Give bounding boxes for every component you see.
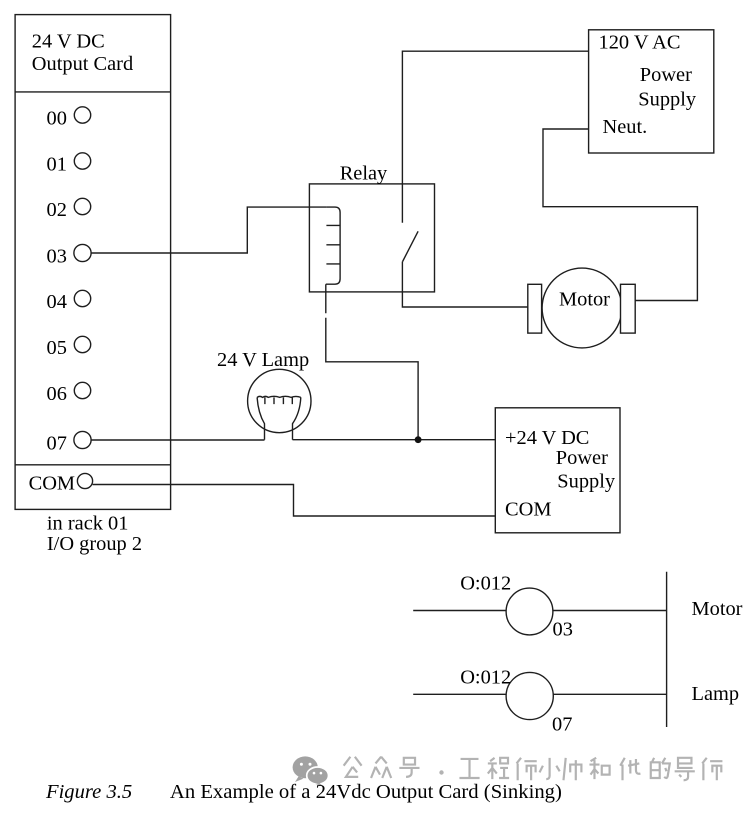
output coil O:012/07 bbox=[506, 672, 553, 719]
relay coil K1 bbox=[326, 207, 340, 284]
card COM divider bbox=[15, 464, 171, 466]
120VAC power supply box bbox=[589, 30, 714, 153]
svg-text:Figure 3.5: Figure 3.5 bbox=[45, 781, 132, 803]
svg-text:02: 02 bbox=[47, 199, 67, 221]
svg-text:Power: Power bbox=[556, 447, 608, 469]
lamp bulb bbox=[248, 369, 311, 432]
wire output 07 to lamp bbox=[91, 439, 264, 441]
svg-text:07: 07 bbox=[552, 714, 572, 736]
svg-text:05: 05 bbox=[47, 337, 67, 359]
svg-text:Power: Power bbox=[640, 64, 692, 86]
svg-text:06: 06 bbox=[47, 383, 67, 405]
terminal 00 bbox=[74, 107, 90, 123]
wire lamp to +24V supply bbox=[293, 439, 496, 441]
terminal 03 bbox=[74, 244, 91, 261]
svg-text:Supply: Supply bbox=[638, 88, 697, 110]
svg-text:120 V AC: 120 V AC bbox=[599, 31, 681, 53]
ladder rail bbox=[666, 572, 668, 727]
wire relay contact to motor bbox=[402, 262, 527, 308]
relay contact blade bbox=[403, 231, 419, 261]
relay box bbox=[309, 184, 434, 292]
junction node bbox=[415, 436, 422, 443]
svg-text:00: 00 bbox=[47, 108, 67, 130]
watermark wechat icon bbox=[293, 756, 329, 786]
svg-text:Motor: Motor bbox=[692, 598, 743, 620]
svg-text:Motor: Motor bbox=[559, 289, 610, 311]
card header divider bbox=[15, 91, 171, 93]
svg-text:An Example of a 24Vdc Output C: An Example of a 24Vdc Output Card (Sinki… bbox=[170, 781, 562, 803]
svg-text:+24 V DC: +24 V DC bbox=[505, 427, 589, 449]
watermark text strokes bbox=[344, 757, 723, 781]
wire neutral to motor bbox=[543, 129, 697, 301]
svg-text:Relay: Relay bbox=[340, 162, 388, 184]
wire output 03 to relay coil bbox=[91, 207, 326, 253]
svg-text:Neut.: Neut. bbox=[603, 116, 648, 138]
output card box bbox=[15, 15, 171, 510]
svg-text:in rack 01: in rack 01 bbox=[47, 513, 129, 535]
svg-text:O:012: O:012 bbox=[460, 572, 511, 594]
svg-text:24 V Lamp: 24 V Lamp bbox=[217, 349, 309, 371]
output coil O:012/03 bbox=[506, 588, 553, 635]
motor right terminal bbox=[621, 284, 636, 333]
wire relay coil to junction bbox=[326, 284, 418, 440]
motor body bbox=[542, 268, 622, 348]
+24VDC power supply box bbox=[495, 408, 620, 533]
svg-text:07: 07 bbox=[47, 433, 67, 455]
svg-text:24 V DC: 24 V DC bbox=[32, 31, 105, 53]
terminal COM bbox=[77, 473, 92, 488]
terminal 01 bbox=[74, 153, 90, 169]
svg-text:I/O group 2: I/O group 2 bbox=[47, 533, 142, 555]
terminal 05 bbox=[74, 336, 90, 352]
svg-text:COM: COM bbox=[505, 499, 551, 521]
wire 120VAC hot to relay contact bbox=[402, 51, 588, 223]
terminal 07 bbox=[74, 431, 91, 448]
svg-text:04: 04 bbox=[47, 291, 67, 313]
motor left terminal bbox=[528, 284, 542, 333]
svg-text:O:012: O:012 bbox=[460, 667, 511, 689]
svg-text:01: 01 bbox=[47, 154, 67, 176]
ladder rung 2 bbox=[413, 693, 666, 695]
svg-text:03: 03 bbox=[553, 619, 573, 641]
terminal 04 bbox=[74, 290, 90, 306]
wire COM to +24V supply bbox=[93, 485, 496, 517]
svg-text:03: 03 bbox=[47, 246, 67, 268]
terminal 06 bbox=[74, 382, 90, 398]
lamp filament bbox=[257, 396, 301, 439]
ladder rung 1 bbox=[413, 610, 666, 612]
svg-text:Lamp: Lamp bbox=[692, 683, 740, 705]
svg-text:COM: COM bbox=[29, 473, 75, 495]
svg-text:Supply: Supply bbox=[557, 470, 616, 492]
svg-text:Output Card: Output Card bbox=[32, 53, 133, 75]
terminal 02 bbox=[74, 198, 90, 214]
